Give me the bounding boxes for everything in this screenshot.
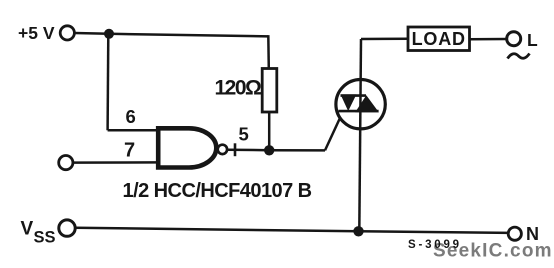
terminal input pin 7: [59, 156, 73, 170]
svg-text:1/2 HCC/HCF40107 B: 1/2 HCC/HCF40107 B: [123, 180, 312, 202]
triac bottom bar: [339, 110, 379, 113]
triac left triangle: [341, 94, 357, 111]
svg-text:L: L: [527, 30, 538, 50]
svg-text:+5 V: +5 V: [18, 23, 55, 43]
triac right triangle: [355, 95, 379, 112]
svg-text:5: 5: [239, 124, 249, 145]
node C (junction triac bottom / rail): [353, 226, 363, 236]
terminal VSS: [59, 220, 75, 236]
wire gate diagonal into triac: [325, 112, 343, 151]
wire resistor bottom to node B: [268, 112, 271, 150]
svg-text:6: 6: [126, 106, 136, 127]
wire corner down to resistor top: [267, 35, 270, 69]
wire triac top to LOAD: [361, 38, 409, 41]
triac top bar: [341, 94, 367, 97]
terminal L: [507, 32, 521, 46]
output bubble of U1: [218, 145, 227, 154]
wire pin 7 input: [73, 161, 159, 164]
wire top rail to resistor corner: [109, 34, 268, 37]
wire bottom rail: [76, 228, 509, 233]
resistor 120ohm body: [262, 69, 277, 113]
terminal N: [508, 227, 521, 240]
wire node B toward triac gate: [269, 149, 325, 152]
svg-text:S-3099: S-3099: [408, 239, 462, 251]
svg-text:120Ω: 120Ω: [215, 77, 262, 100]
svg-text:7: 7: [124, 139, 135, 161]
triac circle: [336, 80, 385, 129]
wire triac vertical (MT2 to MT1): [359, 39, 361, 231]
svg-text:LOAD: LOAD: [412, 29, 466, 49]
tick mark on pin 5 wire: [234, 143, 237, 156]
NAND gate U1 (1/2 HCC/HCF40107B): [158, 128, 216, 167]
wire +5V to junction A: [75, 32, 110, 35]
wire U1 output to node B: [228, 148, 270, 151]
wire node A down to pin 6: [106, 34, 109, 131]
node A (junction dot on +5V rail): [104, 29, 114, 39]
node B (junction at gate output / resistor): [264, 145, 274, 155]
wire pin 6 input: [108, 129, 159, 132]
AC tilde under L: [508, 54, 530, 59]
LOAD box: [408, 27, 470, 51]
terminal +5V: [60, 26, 74, 40]
svg-text:SS: SS: [34, 228, 56, 246]
wire LOAD to terminal L: [470, 38, 507, 41]
svg-text:V: V: [21, 219, 34, 240]
